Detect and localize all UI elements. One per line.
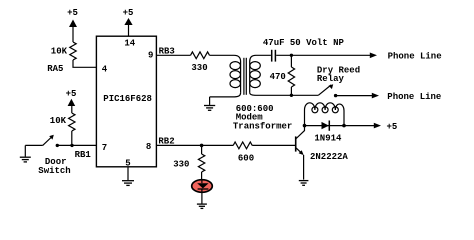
svg-text:Phone Line: Phone Line: [387, 92, 441, 102]
svg-text:470: 470: [270, 72, 286, 82]
svg-text:+5: +5: [66, 89, 77, 99]
svg-text:600: 600: [238, 154, 254, 164]
svg-text:Relay: Relay: [317, 74, 345, 84]
svg-text:RB3: RB3: [159, 46, 175, 56]
svg-text:+5: +5: [67, 8, 78, 18]
svg-text:4: 4: [102, 65, 108, 75]
svg-text:7: 7: [102, 143, 107, 153]
svg-text:RB2: RB2: [158, 136, 174, 146]
svg-text:14: 14: [124, 38, 135, 48]
svg-text:+5: +5: [387, 122, 398, 132]
svg-text:47uF 50 Volt NP: 47uF 50 Volt NP: [263, 38, 345, 48]
svg-text:Phone Line: Phone Line: [388, 52, 442, 62]
svg-text:2N2222A: 2N2222A: [310, 152, 348, 162]
svg-text:9: 9: [148, 50, 153, 60]
svg-text:10K: 10K: [51, 46, 68, 56]
svg-text:+5: +5: [123, 8, 134, 18]
svg-text:8: 8: [146, 142, 151, 152]
svg-text:Switch: Switch: [38, 166, 70, 176]
svg-text:330: 330: [191, 63, 207, 73]
svg-text:PIC16F628: PIC16F628: [103, 94, 152, 104]
svg-text:10K: 10K: [50, 116, 67, 126]
svg-text:5: 5: [125, 158, 130, 168]
svg-text:1N914: 1N914: [314, 134, 342, 144]
svg-text:Transformer: Transformer: [233, 122, 292, 132]
svg-text:330: 330: [173, 160, 189, 170]
svg-text:RB1: RB1: [75, 150, 92, 160]
svg-text:RA5: RA5: [47, 64, 63, 74]
